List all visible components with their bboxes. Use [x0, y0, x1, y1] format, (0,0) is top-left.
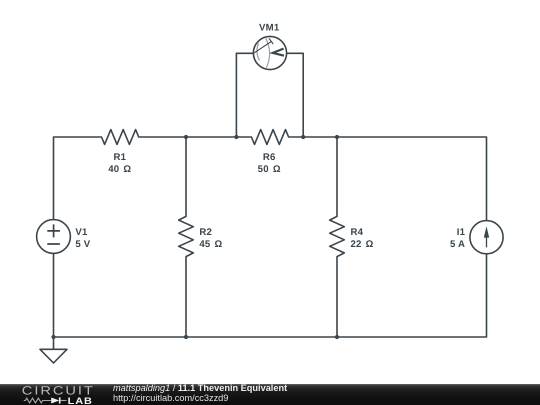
svg-text:R2: R2	[199, 227, 212, 238]
svg-text:R1: R1	[113, 152, 126, 163]
svg-text:R6: R6	[263, 152, 276, 163]
svg-text:5 V: 5 V	[75, 239, 90, 250]
svg-text:R4: R4	[351, 227, 364, 238]
svg-text:22 Ω: 22 Ω	[351, 239, 374, 250]
svg-text:V1: V1	[75, 227, 88, 238]
svg-text:45 Ω: 45 Ω	[199, 239, 222, 250]
svg-text:LAB: LAB	[68, 396, 93, 405]
svg-text:VM1: VM1	[259, 23, 280, 34]
svg-text:50 Ω: 50 Ω	[258, 164, 281, 175]
svg-text:5 A: 5 A	[450, 239, 465, 250]
svg-text:I1: I1	[457, 227, 466, 238]
svg-text:40 Ω: 40 Ω	[108, 164, 131, 175]
